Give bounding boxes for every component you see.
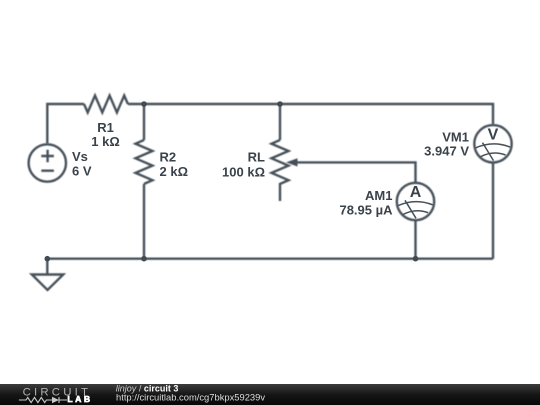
svg-text:LAB: LAB [67,394,92,404]
junction node ground/Vs bottom [45,256,51,262]
footer bar [0,384,540,405]
junction node R1/R2 top [141,101,147,107]
voltage source Vs symbol [29,144,66,181]
potentiometer RL wiper arrowhead [286,158,298,166]
svg-text:V: V [488,127,499,144]
wire bottom rail [47,258,493,260]
wire R1 right along top to VM1 top [128,104,493,124]
svg-text:VM13.947 V: VM13.947 V [424,129,469,158]
svg-text:http://circuitlab.com/cg7bkpx5: http://circuitlab.com/cg7bkpx59239v [116,392,265,403]
CircuitLab logo resistor-diode squiggle [19,397,67,403]
svg-text:R22 kΩ: R22 kΩ [160,150,189,180]
wire RL wiper to AM1 top [296,162,416,183]
wire Vs top lead to R1 left [47,104,84,144]
wire ground stub [46,259,48,275]
resistor R1 [84,96,128,113]
junction node RL top [277,101,283,107]
wire R2 top lead [143,104,145,140]
ammeter AM1 symbol [397,183,434,220]
junction node R2 bottom [141,256,147,262]
potentiometer RL body [272,140,289,201]
svg-text:R11 kΩ: R11 kΩ [91,120,120,149]
svg-text:RL100 kΩ: RL100 kΩ [222,150,265,180]
junction node AM1 bottom [413,256,419,262]
wire AM1 bottom lead [414,220,416,259]
CircuitLab logo diode triangle [52,397,59,403]
svg-text:AM178.95 µA: AM178.95 µA [339,188,393,218]
wire RL top lead [279,104,281,140]
ground symbol [32,275,64,291]
voltmeter VM1 symbol [474,125,511,162]
wire VM1 bottom to bottom-right corner [492,163,494,259]
svg-text:Vs6 V: Vs6 V [72,149,92,178]
resistor R2 [136,140,153,184]
wire R2 bottom lead [143,184,145,259]
svg-text:A: A [410,184,422,201]
